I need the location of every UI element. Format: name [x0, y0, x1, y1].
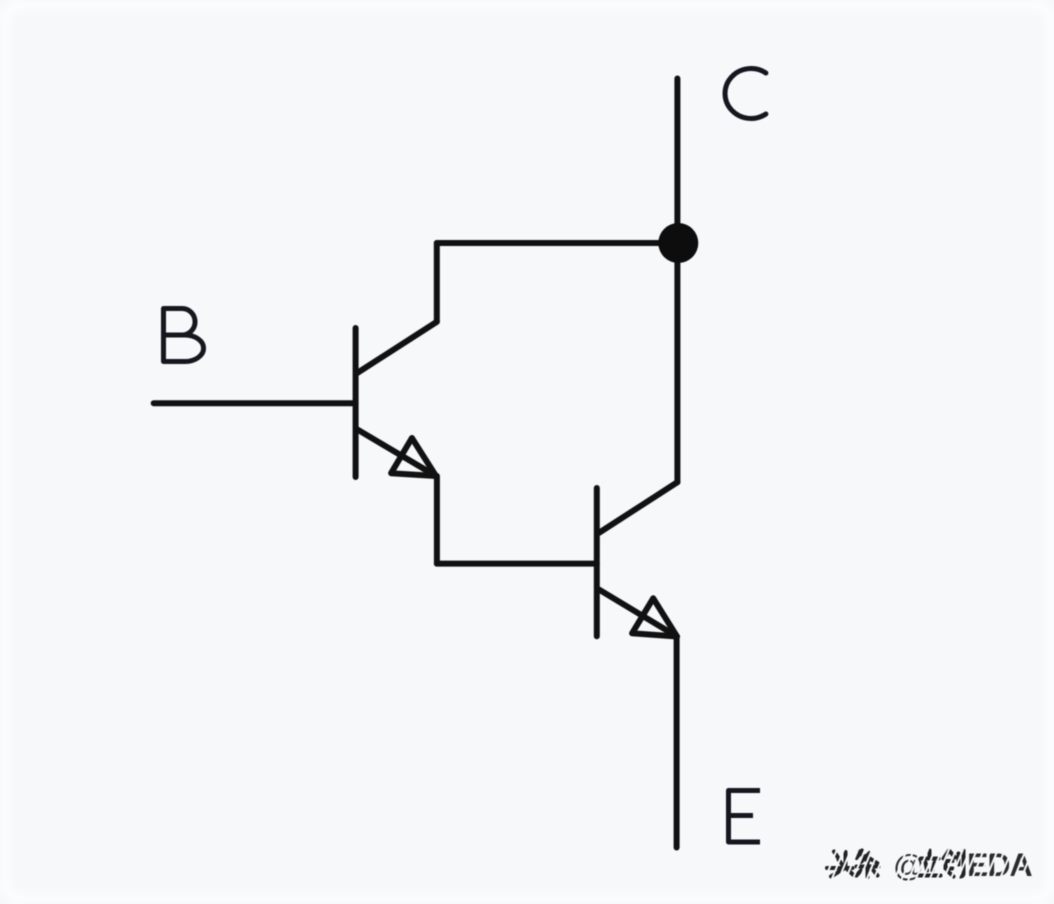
- watermark char 条: [857, 851, 879, 878]
- wire emitter E vertical: [674, 637, 680, 848]
- watermark char 立: [919, 851, 941, 876]
- node junction dot at C: [658, 223, 698, 263]
- wire Q1 emitter to Q2 base horizontal: [437, 561, 597, 567]
- watermark char 头: [827, 852, 854, 877]
- transistor Q2 collector diagonal: [599, 482, 677, 533]
- watermark white stripe hatching: [824, 847, 1034, 881]
- wire base B lead: [154, 400, 356, 406]
- transistor Q1 emitter arrowhead: [391, 438, 436, 476]
- pin label E: [729, 791, 761, 843]
- pin label C: [725, 69, 766, 119]
- wire Q1 emitter vertical: [434, 476, 440, 564]
- watermark char 创: [944, 851, 964, 877]
- transistor Q1 base bar: [353, 328, 359, 477]
- transistor Q2 emitter arrowhead: [632, 598, 677, 636]
- transistor Q2 emitter diagonal: [599, 590, 677, 637]
- wire collector C vertical: [674, 79, 680, 483]
- transistor Q1 collector diagonal: [358, 322, 437, 373]
- watermark 头条 @立创EDA: [827, 851, 964, 878]
- wire Q1 collector vertical: [434, 243, 440, 322]
- wire top horizontal to node C: [437, 240, 679, 246]
- pin label B: [164, 309, 204, 362]
- transistor Q1 emitter diagonal: [358, 430, 437, 476]
- transistor Q2 base bar: [594, 488, 600, 636]
